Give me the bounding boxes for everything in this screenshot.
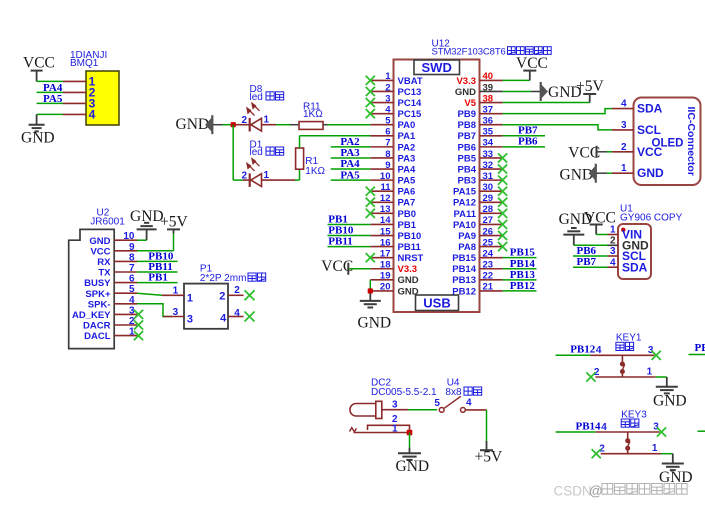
svg-text:GND: GND <box>89 236 110 247</box>
component U2 body <box>69 229 115 348</box>
svg-text:GY906 COPY: GY906 COPY <box>620 212 683 223</box>
svg-text:3: 3 <box>648 345 654 356</box>
svg-text:PB15: PB15 <box>452 253 476 264</box>
node PA4 wire (BMQ1 pin2) <box>37 82 63 94</box>
svg-text:8: 8 <box>385 149 390 160</box>
svg-text:1: 1 <box>652 443 658 454</box>
svg-text:PA8: PA8 <box>458 242 476 253</box>
svg-text:PB12: PB12 <box>452 286 476 297</box>
svg-text:DC005-5.5-2.1: DC005-5.5-2.1 <box>371 387 437 398</box>
svg-text:DACR: DACR <box>83 321 111 332</box>
component U1 body <box>618 224 651 279</box>
svg-text:PC15: PC15 <box>398 109 422 120</box>
U12 left pins 1-20 <box>370 71 423 297</box>
svg-text:GND: GND <box>560 167 594 184</box>
svg-text:PA15: PA15 <box>453 187 477 198</box>
svg-text:PB14: PB14 <box>576 420 602 432</box>
svg-text:31: 31 <box>483 171 494 182</box>
svg-text:PA11: PA11 <box>453 209 476 220</box>
svg-text:9: 9 <box>129 242 135 253</box>
svg-text:USB: USB <box>423 295 450 310</box>
svg-text:20: 20 <box>380 282 391 293</box>
P1 pin4 no-connect <box>220 308 243 325</box>
svg-text:4: 4 <box>596 345 602 356</box>
svg-text:32: 32 <box>483 160 494 171</box>
ground (BMQ1) <box>21 114 55 146</box>
ground (U12) <box>358 301 392 332</box>
svg-text:1KΩ: 1KΩ <box>303 109 323 120</box>
svg-text:4: 4 <box>610 257 616 268</box>
svg-text:GND: GND <box>559 211 593 228</box>
node PB7 wire (U1 SDA) <box>573 256 608 268</box>
svg-text:AD_KEY: AD_KEY <box>72 310 111 321</box>
U12 SWD box <box>414 60 460 75</box>
svg-text:14: 14 <box>380 215 391 226</box>
no-connect X U2 DACL <box>134 331 143 340</box>
svg-text:25: 25 <box>483 237 494 248</box>
no-connect X KEY1 pin2 <box>586 372 595 381</box>
switch KEY3 designator <box>621 409 647 427</box>
svg-text:12: 12 <box>380 193 391 204</box>
svg-text:26: 26 <box>483 226 494 237</box>
svg-text:+5V: +5V <box>160 214 188 231</box>
svg-text:28: 28 <box>483 204 494 215</box>
svg-text:GND: GND <box>21 130 55 147</box>
component BMQ1 designator <box>70 50 107 69</box>
switch KEY3 body <box>596 432 661 454</box>
node PB14 wire (U12 pin23) <box>503 258 537 270</box>
connector DC2 designator DC005-5.5-2.1 <box>371 378 437 398</box>
U2 pins 10-1 with names <box>72 231 137 342</box>
node PB10 wire (U12 pin15) <box>328 225 371 237</box>
svg-text:DACL: DACL <box>84 331 111 342</box>
svg-text:1KΩ: 1KΩ <box>305 166 325 177</box>
ground (U1 GND pin) <box>559 211 608 245</box>
wire U2 SPK- to P1 pin3 <box>137 304 172 317</box>
node PB13 partial wire (right edge) <box>689 342 705 355</box>
node PB6 wire (U12 pin34) <box>503 136 545 148</box>
power GND arrow (U12 pin39) <box>503 82 582 101</box>
svg-text:IIC-Connector: IIC-Connector <box>685 107 697 176</box>
svg-text:PA5: PA5 <box>43 93 63 105</box>
svg-text:PB11: PB11 <box>398 242 422 253</box>
ground (KEY3) <box>659 464 693 487</box>
svg-text:4: 4 <box>129 295 135 306</box>
svg-text:@: @ <box>589 483 603 498</box>
svg-text:4: 4 <box>220 313 227 325</box>
svg-text:VCC: VCC <box>516 55 548 72</box>
svg-text:V3.3: V3.3 <box>456 76 476 87</box>
svg-text:1: 1 <box>647 366 653 377</box>
svg-text:PB1: PB1 <box>398 220 417 231</box>
svg-text:PA9: PA9 <box>458 231 476 242</box>
svg-text:PB12: PB12 <box>510 280 536 292</box>
svg-text:4: 4 <box>385 104 391 115</box>
wire U2 SPK+ to P1 pin1 <box>137 293 162 295</box>
ground (KEY1) <box>653 387 687 410</box>
no-connect X P1 pin4 <box>245 312 255 322</box>
svg-text:GND: GND <box>398 275 419 286</box>
node PB6 wire (U1 SCL) <box>573 245 608 257</box>
svg-text:PB7: PB7 <box>577 256 597 268</box>
component U2 designator JR6001 <box>90 208 125 228</box>
power GND arrow (OLED pin1) <box>560 164 613 184</box>
svg-text:PB7: PB7 <box>458 131 476 142</box>
node PB11 wire (U12 pin16) <box>328 236 371 248</box>
diode D8 label <box>250 84 284 103</box>
node PB12 wire (U12 pin21) <box>503 280 537 292</box>
power VCC (OLED pin2) <box>568 145 612 162</box>
svg-text:5: 5 <box>129 284 135 295</box>
svg-text:PB8: PB8 <box>458 120 476 131</box>
svg-text:23: 23 <box>483 260 494 271</box>
svg-text:PA4: PA4 <box>398 164 416 175</box>
resistor R11 <box>299 122 323 130</box>
svg-text:PA3: PA3 <box>398 153 416 164</box>
svg-text:2: 2 <box>241 171 247 182</box>
svg-text:PA1: PA1 <box>398 131 416 142</box>
svg-text:3: 3 <box>385 93 390 104</box>
svg-text:+5V: +5V <box>475 448 503 465</box>
svg-text:5: 5 <box>385 116 391 127</box>
U1 pins 1-4 <box>608 225 650 275</box>
resistor R1 <box>296 148 304 169</box>
svg-text:4: 4 <box>89 108 96 122</box>
svg-text:15: 15 <box>380 226 391 237</box>
DC2 pin3 wire to U4 <box>382 400 437 411</box>
svg-text:VCC: VCC <box>637 145 663 159</box>
node PB7 wire (U12 pin35) <box>503 125 545 137</box>
svg-text:GND: GND <box>455 87 476 98</box>
svg-text:2: 2 <box>219 291 225 303</box>
svg-text:2: 2 <box>610 236 616 247</box>
svg-text:1: 1 <box>173 286 179 297</box>
svg-text:PB13: PB13 <box>452 275 476 286</box>
svg-text:GND: GND <box>176 116 210 133</box>
svg-text:SCL: SCL <box>637 123 661 137</box>
svg-text:2*2P 2mm: 2*2P 2mm <box>200 273 247 284</box>
connector OLED body (IIC-Connector) <box>634 98 701 186</box>
no-connect X U12 pins 1-4 <box>366 76 375 118</box>
node PB1 wire (U12 pin14) <box>328 213 371 225</box>
no-connect X KEY1 pin3 <box>652 351 661 360</box>
switch U4 <box>439 396 465 412</box>
svg-text:PA2: PA2 <box>398 142 416 153</box>
power +5V (U2 pin9) <box>137 214 188 251</box>
svg-text:3: 3 <box>173 307 179 318</box>
wire R1 to U12 pin6 PA1 <box>300 136 371 148</box>
diode D8 (LED) <box>236 103 270 131</box>
switch KEY1 designator <box>616 333 642 351</box>
power VCC (U12 pin40) <box>503 55 548 80</box>
svg-text:39: 39 <box>483 82 494 93</box>
svg-text:PB5: PB5 <box>458 153 477 164</box>
svg-text:7: 7 <box>385 138 390 149</box>
svg-text:SDA: SDA <box>622 260 648 274</box>
svg-text:2: 2 <box>241 115 247 126</box>
svg-text:VCC: VCC <box>568 145 600 162</box>
svg-text:21: 21 <box>483 282 494 293</box>
node PA5 wire (BMQ1 pin3) <box>37 93 63 105</box>
BMQ1 pins 1-4 <box>63 75 96 122</box>
switch KEY1 body <box>590 355 655 377</box>
node PA4 wire (U12 pin9) <box>331 158 371 170</box>
node PB13 wire (U12 pin22) <box>503 269 537 281</box>
svg-text:PB: PB <box>695 342 705 354</box>
ground (DC2) <box>396 453 430 475</box>
svg-text:RX: RX <box>97 257 111 268</box>
svg-text:24: 24 <box>483 248 494 259</box>
svg-text:SPK+: SPK+ <box>85 289 111 300</box>
svg-text:30: 30 <box>483 182 494 193</box>
svg-text:BMQ1: BMQ1 <box>70 58 99 69</box>
svg-text:27: 27 <box>483 215 494 226</box>
svg-text:PB9: PB9 <box>458 109 476 120</box>
svg-text:10: 10 <box>123 231 135 242</box>
svg-text:JR6001: JR6001 <box>90 216 125 227</box>
svg-text:GND: GND <box>358 314 392 331</box>
svg-text:16: 16 <box>380 237 391 248</box>
P1 pin2 no-connect <box>219 285 243 302</box>
svg-text:35: 35 <box>483 127 494 138</box>
svg-text:BUSY: BUSY <box>84 278 111 289</box>
svg-text:PB4: PB4 <box>458 164 477 175</box>
svg-text:2: 2 <box>234 285 240 296</box>
node PA5 wire (U12 pin10) <box>331 169 371 181</box>
no-connect X KEY3 pin2 <box>592 449 601 458</box>
power GND arrow (LED net) <box>176 115 213 134</box>
svg-text:NRST: NRST <box>398 253 424 264</box>
svg-text:17: 17 <box>380 248 391 259</box>
svg-text:GND: GND <box>396 458 430 475</box>
node PB11 wire (U2 TX) <box>137 261 178 273</box>
no-connect X U12 pins 11,12,13 <box>366 187 375 218</box>
svg-text:PB6: PB6 <box>577 245 597 257</box>
op U12 designator STM32F103C8T6 <box>432 38 552 57</box>
svg-text:SWD: SWD <box>422 60 452 75</box>
no-connect X U2 AD_KEY <box>134 310 143 319</box>
svg-text:led: led <box>250 92 263 103</box>
svg-text:22: 22 <box>483 271 494 282</box>
DC2 pin1 with sleeve contact <box>350 424 410 435</box>
svg-text:TX: TX <box>98 268 111 279</box>
svg-text:3: 3 <box>610 246 616 257</box>
svg-text:1: 1 <box>187 292 193 304</box>
node PA2 wire (U12 pin7) <box>331 136 371 148</box>
svg-text:PC13: PC13 <box>398 87 422 98</box>
wire D8 to R11 <box>262 124 300 126</box>
no-connect X U12 pins 33-25 <box>498 153 507 251</box>
switch U4 designator 8x8 <box>445 378 481 399</box>
svg-text:GND: GND <box>637 166 664 180</box>
svg-text:PB6: PB6 <box>518 136 538 148</box>
power +5V (U4) <box>475 441 503 465</box>
svg-text:7: 7 <box>129 263 135 274</box>
svg-text:GND: GND <box>130 208 164 225</box>
diode D1 (LED) <box>233 159 269 187</box>
svg-text:PB14: PB14 <box>452 264 476 275</box>
svg-text:9: 9 <box>385 160 390 171</box>
wire KEY1 pin1 to GND <box>656 377 667 387</box>
node PB14 wire (KEY3 pin4) <box>556 420 608 432</box>
wire R11 to U12 pin5 PA0 <box>323 124 370 126</box>
svg-text:2: 2 <box>385 82 390 93</box>
power +5V (U12 pin38 V5) <box>503 78 605 103</box>
wire KEY3 pin1 to GND <box>661 454 673 464</box>
ground (U2 pin10) <box>130 208 164 240</box>
svg-text:SDA: SDA <box>637 102 663 116</box>
svg-text:PA7: PA7 <box>398 198 416 209</box>
no-connect X KEY3 pin3 <box>657 427 666 436</box>
power VCC (BMQ1) <box>23 54 55 81</box>
P1 pin1 <box>162 286 193 305</box>
resistor R1 label 1KΩ <box>305 156 325 177</box>
svg-text:PB6: PB6 <box>458 142 476 153</box>
svg-text:37: 37 <box>483 104 494 115</box>
svg-text:36: 36 <box>483 116 494 127</box>
U12 USB box <box>416 295 459 311</box>
DC2 pin2 <box>368 414 410 433</box>
no-connect X P1 pin2 <box>245 290 255 300</box>
node PA3 wire (U12 pin8) <box>331 147 371 159</box>
svg-text:40: 40 <box>483 71 494 82</box>
svg-text:GND: GND <box>653 392 687 409</box>
component P1 designator <box>200 263 266 284</box>
wire BMQ1 pin4 to GND <box>37 113 63 115</box>
svg-text:PC14: PC14 <box>398 98 422 109</box>
svg-text:VCC: VCC <box>23 54 55 71</box>
svg-text:CSDN: CSDN <box>554 483 592 498</box>
svg-text:38: 38 <box>483 93 494 104</box>
wire U12 pin37 to OLED SDA <box>503 109 612 114</box>
node PB1 wire (U2 BUSY) <box>137 272 178 284</box>
svg-text:33: 33 <box>483 149 494 160</box>
svg-text:PA10: PA10 <box>453 220 476 231</box>
svg-text:PA0: PA0 <box>398 120 416 131</box>
svg-text:PB0: PB0 <box>398 209 416 220</box>
svg-text:1: 1 <box>385 71 391 82</box>
svg-text:6: 6 <box>129 274 135 285</box>
svg-text:4: 4 <box>466 398 472 409</box>
op-amp U12 body <box>394 60 480 313</box>
junction DC2 GND <box>407 430 413 436</box>
junction LED net <box>231 122 236 127</box>
wire DC2 to GND <box>409 433 411 454</box>
connector DC2 barrel jack body <box>350 401 382 418</box>
svg-text:GND: GND <box>398 286 419 297</box>
svg-text:SPK-: SPK- <box>88 299 111 310</box>
svg-text:PA12: PA12 <box>453 198 476 209</box>
resistor R11 label 1KΩ <box>303 101 323 120</box>
svg-text:PB1: PB1 <box>148 272 168 284</box>
wire VCC to BMQ1 pin1 <box>37 80 63 82</box>
svg-text:19: 19 <box>380 271 391 282</box>
svg-text:6: 6 <box>385 127 390 138</box>
svg-text:V5: V5 <box>464 98 476 109</box>
component P1 body <box>184 284 228 329</box>
svg-text:PB12: PB12 <box>570 344 596 356</box>
diode D1 label <box>250 139 284 158</box>
no-connect X U2 DACR <box>134 320 143 329</box>
node PB15 partial wire (right edge) <box>698 430 705 432</box>
svg-text:34: 34 <box>483 138 494 149</box>
node PB10 wire (U2 RX) <box>137 250 178 262</box>
power VCC (U1 VIN) <box>584 209 616 234</box>
svg-text:PA5: PA5 <box>340 169 360 181</box>
component U1 designator GY906 COPY <box>620 204 683 224</box>
no-connect X U12 pin17 <box>366 253 375 262</box>
svg-text:4: 4 <box>601 422 607 433</box>
svg-text:PA5: PA5 <box>398 176 416 187</box>
svg-text:V3.3: V3.3 <box>398 264 418 275</box>
svg-text:11: 11 <box>380 182 391 193</box>
wire junction down to D1 <box>232 125 234 180</box>
svg-text:STM32F103C8T6: STM32F103C8T6 <box>432 46 506 57</box>
power VCC (U12 pin18 NRST net) <box>321 258 370 275</box>
svg-text:10: 10 <box>380 171 391 182</box>
svg-text:29: 29 <box>483 193 494 204</box>
svg-text:8: 8 <box>129 252 135 263</box>
svg-text:PB10: PB10 <box>398 231 422 242</box>
svg-text:VBAT: VBAT <box>398 76 423 87</box>
wire U12 pins19-20 to GND <box>369 280 371 301</box>
U12 right pins 40-21 <box>452 71 502 297</box>
svg-text:18: 18 <box>380 260 391 271</box>
node PB15 wire (U12 pin24) <box>503 247 537 259</box>
svg-text:4: 4 <box>234 308 240 319</box>
svg-text:led: led <box>250 147 263 158</box>
wire U4 pin4 to +5V <box>465 410 486 441</box>
P1 pin3 <box>163 307 193 326</box>
OLED pins 4,3,2,1 <box>612 99 664 181</box>
wire U12 pin36 to OLED SCL <box>503 125 612 130</box>
svg-text:1: 1 <box>621 163 627 174</box>
svg-text:2: 2 <box>621 142 627 153</box>
watermark CSDN <box>554 483 688 498</box>
svg-text:PA6: PA6 <box>398 187 416 198</box>
wire D1 to R1 <box>262 169 300 180</box>
node PB12 wire (KEY1 pin4) <box>556 344 602 356</box>
svg-text:5: 5 <box>434 398 440 409</box>
component BMQ1 body <box>86 71 119 125</box>
svg-text:4: 4 <box>621 99 627 110</box>
svg-text:PB11: PB11 <box>328 236 352 248</box>
svg-text:PB3: PB3 <box>458 176 476 187</box>
svg-text:VCC: VCC <box>90 246 110 257</box>
wire GND to junction <box>213 124 231 126</box>
svg-text:3: 3 <box>621 120 627 131</box>
svg-text:3: 3 <box>187 314 193 326</box>
svg-text:3: 3 <box>653 422 659 433</box>
svg-text:13: 13 <box>380 204 391 215</box>
svg-text:+5V: +5V <box>576 78 604 95</box>
junction U12 GND <box>368 288 373 293</box>
